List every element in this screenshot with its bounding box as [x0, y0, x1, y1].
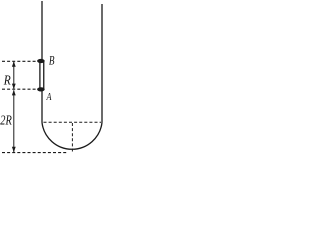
node B dot [37, 59, 45, 63]
dashed level line at B [2, 60, 40, 62]
wire right tube wall [101, 4, 103, 123]
arrowhead down at bottom (2R) [12, 147, 16, 153]
wire left tube wall upper segment [41, 1, 43, 61]
svg-text:B: B [49, 52, 55, 67]
dimension line R [13, 62, 15, 89]
sleeve segment AB right edge [43, 62, 45, 90]
dimension line 2R [13, 90, 15, 152]
node A dot [37, 87, 45, 91]
svg-text:A: A [46, 91, 52, 103]
arrowhead up at B level [12, 61, 16, 67]
sleeve segment AB left edge [39, 62, 41, 90]
hemispherical bottom of tube [42, 123, 102, 150]
background [0, 0, 113, 162]
arrowhead down at A level [12, 84, 16, 90]
svg-text:2R: 2R [0, 113, 12, 128]
wire left tube wall lower segment [41, 90, 43, 123]
dashed bottom level line [2, 152, 68, 154]
dashed radius line [71, 123, 73, 152]
dashed level line at A [2, 88, 40, 90]
svg-text:R: R [3, 72, 11, 87]
arrowhead up at A level (2R) [12, 90, 16, 96]
dashed diameter line [44, 121, 102, 123]
